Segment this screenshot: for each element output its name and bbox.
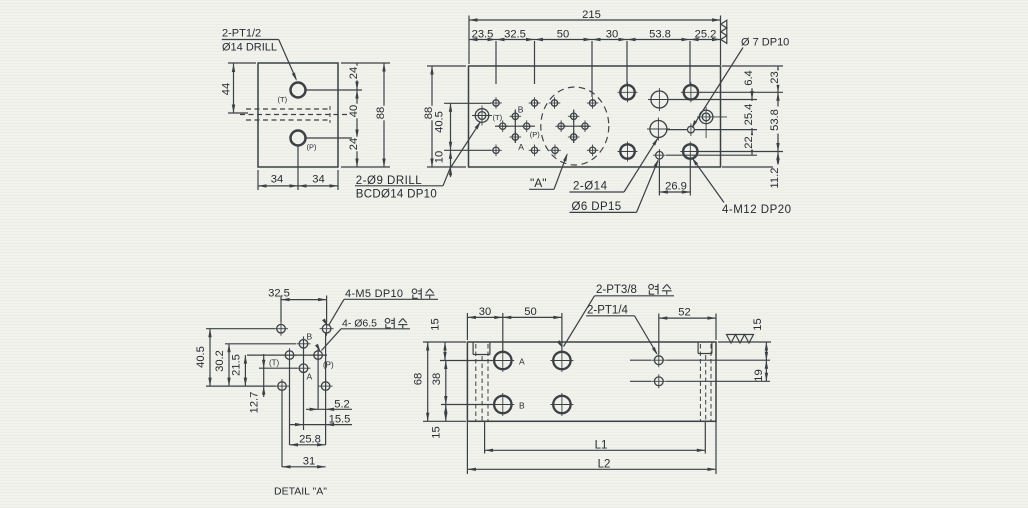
- svg-text:53.8: 53.8: [649, 28, 671, 40]
- svg-text:11.2: 11.2: [769, 168, 781, 189]
- svg-text:34: 34: [271, 174, 283, 186]
- svg-text:21.5: 21.5: [231, 354, 243, 376]
- svg-text:38: 38: [431, 373, 443, 385]
- svg-text:L1: L1: [595, 439, 608, 451]
- svg-text:6.4: 6.4: [743, 70, 755, 86]
- svg-text:(P): (P): [323, 361, 334, 370]
- svg-text:15: 15: [431, 426, 443, 438]
- svg-text:32.5: 32.5: [504, 28, 526, 40]
- svg-text:A: A: [518, 142, 524, 152]
- svg-text:(T): (T): [269, 359, 280, 368]
- svg-text:25.8: 25.8: [299, 433, 321, 445]
- svg-text:10: 10: [434, 151, 446, 163]
- svg-text:52: 52: [678, 307, 690, 319]
- svg-text:31: 31: [303, 455, 315, 467]
- svg-text:B: B: [307, 332, 313, 342]
- svg-text:(P): (P): [530, 130, 541, 139]
- svg-text:5.2: 5.2: [334, 398, 350, 410]
- svg-text:2-PT1/2: 2-PT1/2: [222, 28, 261, 40]
- svg-text:Ø 7 DP10: Ø 7 DP10: [741, 37, 789, 49]
- svg-text:40.5: 40.5: [434, 111, 446, 133]
- svg-text:(P): (P): [307, 143, 318, 152]
- svg-text:30.2: 30.2: [214, 350, 226, 372]
- svg-text:L2: L2: [598, 458, 611, 470]
- svg-text:B: B: [519, 401, 525, 411]
- svg-text:50: 50: [524, 306, 536, 318]
- svg-text:(T): (T): [493, 113, 503, 122]
- svg-text:B: B: [518, 105, 524, 115]
- svg-text:30: 30: [606, 28, 618, 40]
- svg-text:23.5: 23.5: [472, 28, 494, 40]
- svg-text:4-M12 DP20: 4-M12 DP20: [722, 204, 792, 216]
- svg-text:53.8: 53.8: [769, 109, 781, 131]
- svg-text:2-PT1/4: 2-PT1/4: [587, 305, 629, 317]
- svg-text:Ø6 DP15: Ø6 DP15: [572, 201, 622, 213]
- svg-text:2-Ø14: 2-Ø14: [573, 181, 608, 193]
- svg-text:4- Ø6.5: 4- Ø6.5: [342, 318, 377, 330]
- svg-text:"A": "A": [530, 176, 547, 190]
- svg-text:30: 30: [479, 306, 491, 318]
- svg-text:DETAIL "A": DETAIL "A": [274, 486, 327, 498]
- svg-text:25.2: 25.2: [695, 28, 717, 40]
- svg-text:A: A: [307, 372, 313, 382]
- svg-text:34: 34: [312, 174, 324, 186]
- svg-text:(T): (T): [278, 95, 288, 104]
- svg-text:68: 68: [413, 373, 425, 385]
- svg-text:215: 215: [582, 9, 601, 21]
- svg-text:BCDØ14 DP10: BCDØ14 DP10: [356, 189, 437, 201]
- svg-text:22: 22: [743, 136, 755, 148]
- svg-text:2-PT3/8: 2-PT3/8: [596, 284, 637, 296]
- svg-text:40: 40: [348, 105, 360, 117]
- svg-text:4-M5 DP10: 4-M5 DP10: [345, 288, 403, 300]
- svg-text:23: 23: [769, 71, 781, 83]
- svg-text:24: 24: [348, 138, 360, 150]
- svg-text:15: 15: [752, 318, 764, 330]
- svg-text:19: 19: [753, 369, 765, 381]
- svg-text:44: 44: [221, 83, 233, 95]
- svg-text:25.4: 25.4: [743, 104, 755, 126]
- svg-text:12.7: 12.7: [249, 392, 261, 414]
- svg-text:50: 50: [557, 28, 569, 40]
- svg-text:88: 88: [375, 107, 387, 119]
- svg-text:15.5: 15.5: [329, 414, 351, 426]
- svg-text:Ø14 DRILL: Ø14 DRILL: [222, 42, 277, 54]
- svg-text:32.5: 32.5: [268, 288, 290, 300]
- svg-text:40.5: 40.5: [195, 346, 207, 368]
- svg-text:A: A: [519, 357, 525, 367]
- svg-text:15: 15: [430, 318, 442, 330]
- svg-text:24: 24: [348, 67, 360, 79]
- svg-text:26.9: 26.9: [665, 181, 687, 193]
